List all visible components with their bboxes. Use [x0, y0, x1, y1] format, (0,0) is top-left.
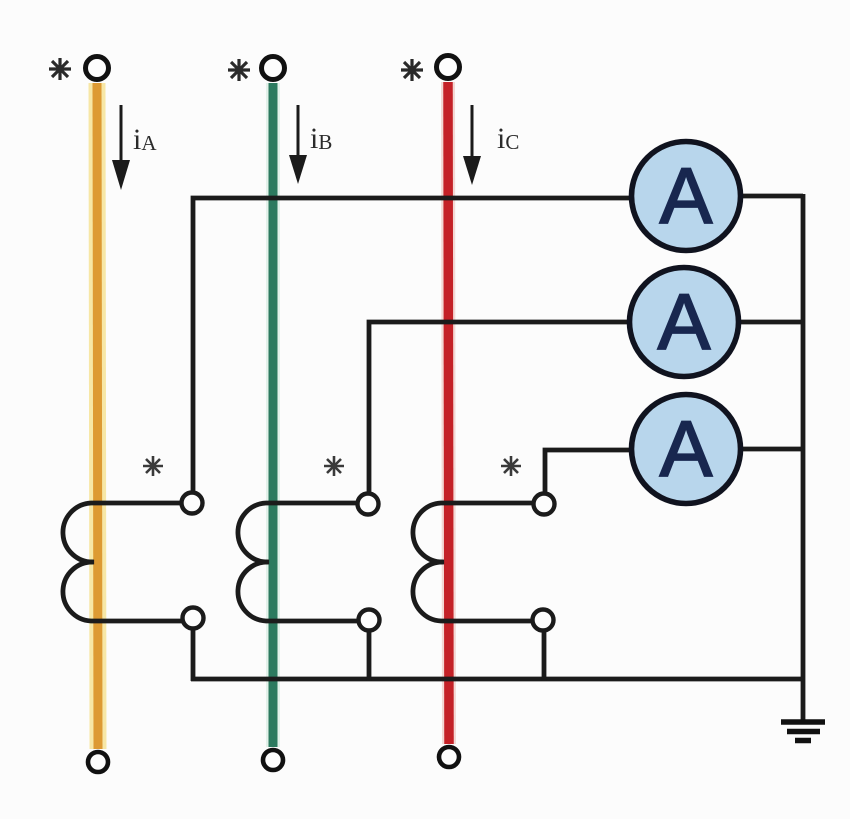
current arrow iB — [289, 105, 307, 184]
polarity mark (asterisk) at CT TA2 secondary — [324, 456, 344, 476]
phase B bottom terminal (circle) — [263, 750, 283, 770]
CT TA3 secondary dot terminal (circle) — [534, 494, 555, 515]
phase C top terminal (circle) — [437, 56, 460, 79]
wire: ammeter PA1 right side to common bus — [742, 194, 803, 199]
ammeter PA1 — [632, 142, 741, 251]
svg-text:A: A — [658, 277, 711, 366]
wire: ammeter PA2 right side to common bus — [740, 320, 803, 325]
phase A bottom terminal (circle) — [88, 752, 108, 772]
polarity mark (asterisk) at phase B primary — [228, 59, 250, 81]
phase B conductor (green bus) — [266, 83, 280, 747]
polarity mark (asterisk) at phase A primary — [49, 58, 71, 80]
polarity mark (asterisk) at CT TA3 secondary — [501, 456, 521, 476]
wire: CT TA3 secondary dot terminal up to node, then right to ammeter PA3 — [545, 450, 630, 492]
phase C bottom terminal (circle) — [439, 747, 459, 767]
wire: right common bus (vertical) down to ground stem — [801, 194, 806, 720]
wire: CT TA3 non-dot terminal down to return bus — [542, 628, 547, 681]
CT TA2 secondary non-dot terminal (circle) — [359, 610, 380, 631]
svg-text:A: A — [660, 404, 713, 493]
current arrow iA — [112, 105, 130, 190]
wire: ammeter PA3 right side to common bus — [742, 447, 803, 452]
polarity mark (asterisk) at CT TA1 secondary — [143, 456, 163, 476]
svg-text:iА: iА — [133, 123, 157, 156]
wire: CT TA2 non-dot terminal down to return bus — [367, 628, 372, 681]
wire: bottom return bus joining CT secondary non-dot terminals — [191, 677, 803, 682]
CT TA2 secondary winding (phase B current transformer) — [238, 503, 358, 621]
ammeter PA3 — [632, 395, 741, 504]
CT TA1 secondary dot terminal (circle) — [182, 493, 203, 514]
wire: CT TA2 secondary dot terminal up to node, then right to ammeter PA2 — [369, 322, 628, 492]
ground — [781, 722, 825, 741]
CT TA2 secondary dot terminal (circle) — [358, 494, 379, 515]
wire: CT TA1 secondary dot terminal up to node, then right to ammeter PA1 — [193, 198, 630, 492]
phase A top terminal (circle) — [86, 57, 109, 80]
svg-text:iС: iС — [497, 122, 519, 155]
phase C conductor (red bus) — [448, 82, 449, 744]
phase B top terminal (circle) — [262, 57, 285, 80]
CT TA3 secondary winding (phase C current transformer) — [413, 503, 533, 621]
CT TA3 secondary non-dot terminal (circle) — [533, 610, 554, 631]
polarity mark (asterisk) at phase C primary — [401, 59, 423, 81]
svg-text:iВ: iВ — [310, 122, 332, 155]
svg-text:A: A — [660, 151, 713, 240]
CT TA1 secondary winding (phase A current transformer) — [63, 503, 183, 621]
current arrow iC — [463, 105, 481, 185]
ammeter PA2 — [630, 268, 739, 377]
phase A conductor (yellow bus) — [97, 83, 98, 749]
CT TA1 secondary non-dot terminal (circle) — [183, 608, 204, 629]
wire: CT TA1 non-dot terminal down to return bus — [191, 626, 196, 681]
